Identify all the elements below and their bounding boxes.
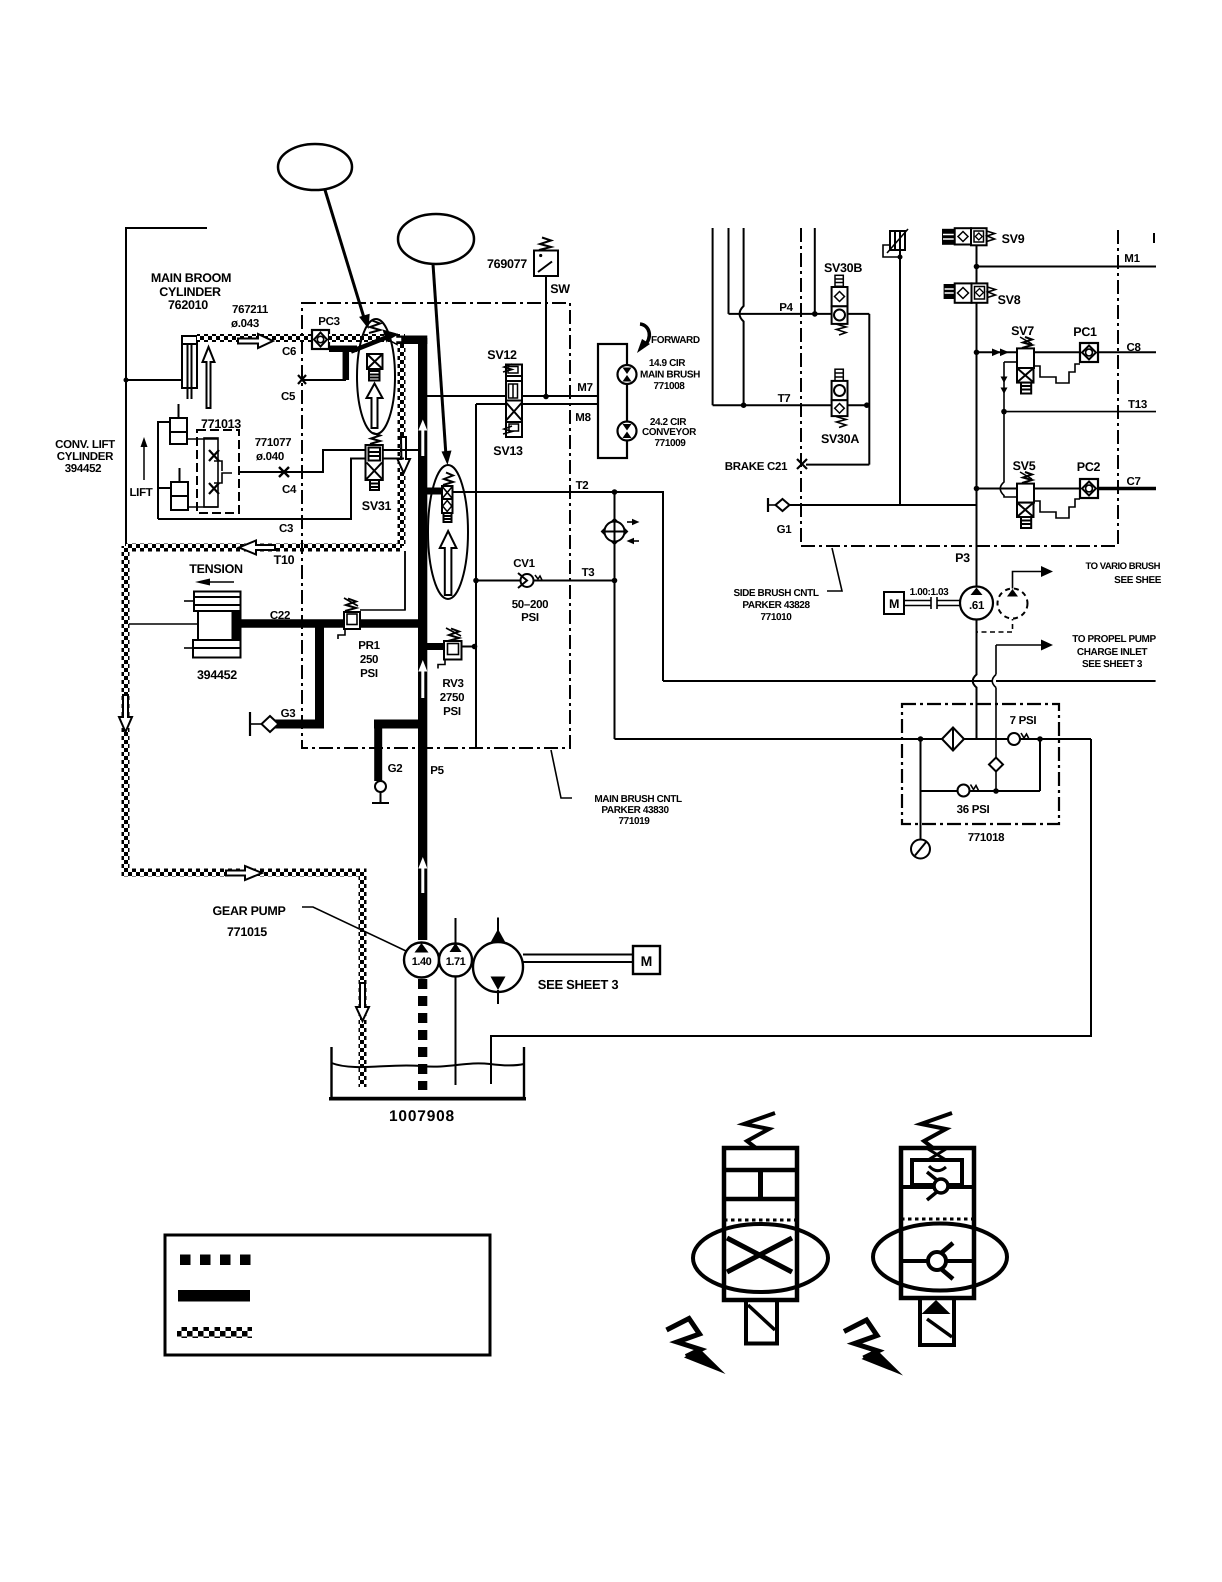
svg-text:C22: C22 xyxy=(270,610,290,622)
charge drop w/ hops xyxy=(973,620,977,740)
label side brush cntl w/ leader xyxy=(827,548,842,591)
svg-text:394452: 394452 xyxy=(197,668,237,682)
svg-text:769077: 769077 xyxy=(487,257,527,271)
svg-text:T3: T3 xyxy=(582,567,595,579)
svg-text:TENSION: TENSION xyxy=(189,562,243,576)
wire cooler return to manifold xyxy=(615,738,1092,740)
white up arrow in bar 1 xyxy=(418,420,427,457)
svg-text:P3: P3 xyxy=(955,551,970,565)
motor M xyxy=(633,946,660,974)
callout balloon 2 xyxy=(398,214,474,264)
wire T2/T3 drop to cooler line xyxy=(614,492,616,739)
white up arrow in bar 3 xyxy=(418,857,427,893)
flow arrow on C6 line xyxy=(238,334,273,348)
port G2 gauge point xyxy=(375,781,386,792)
svg-text:C7: C7 xyxy=(1126,476,1140,488)
wire T2 xyxy=(452,492,663,681)
drive shaft xyxy=(904,597,960,609)
brake port C21 xyxy=(797,459,807,469)
wire M8 riser xyxy=(475,404,477,748)
svg-text:PARKER 43828: PARKER 43828 xyxy=(742,600,810,611)
svg-text:G1: G1 xyxy=(777,524,793,536)
hollow up arrow beside cylinder xyxy=(203,347,215,408)
solenoid valve SV7 xyxy=(1017,337,1034,394)
svg-text:14.9 CIR: 14.9 CIR xyxy=(649,358,686,369)
wire C8 xyxy=(977,351,1081,353)
orifice PC1 xyxy=(1080,343,1098,362)
svg-text:M: M xyxy=(641,953,653,969)
pilot riser (checkered) xyxy=(398,342,406,546)
orifice C4 xyxy=(279,467,289,477)
sheet corner line top-left xyxy=(126,228,207,546)
sheet edge tick xyxy=(1153,233,1155,243)
lift arrow xyxy=(143,441,145,480)
wire P4 xyxy=(729,313,870,315)
svg-text:1.71: 1.71 xyxy=(446,956,466,968)
solenoid valve SV30B xyxy=(832,275,848,335)
svg-text:PSI: PSI xyxy=(360,668,378,680)
svg-text:M8: M8 xyxy=(575,412,591,424)
main broom cylinder 762010 xyxy=(182,336,197,388)
svg-text:M: M xyxy=(889,597,899,611)
solenoid valve SV31 xyxy=(366,433,383,490)
lightning bolt B xyxy=(844,1320,878,1358)
vario brush pump (phantom) xyxy=(998,589,1028,619)
svg-text:SV30B: SV30B xyxy=(824,261,862,275)
svg-text:T10: T10 xyxy=(274,553,295,567)
wire SV9 drop xyxy=(976,245,978,586)
orifice C5 with line xyxy=(298,375,306,384)
leader arrow from balloon 1 xyxy=(325,190,365,321)
svg-text:T7: T7 xyxy=(778,393,791,405)
svg-text:SEE SHEET 3: SEE SHEET 3 xyxy=(538,977,619,992)
solenoid valve SV8 xyxy=(945,283,996,302)
svg-text:ø.043: ø.043 xyxy=(231,318,259,330)
svg-text:PSI: PSI xyxy=(521,612,539,624)
label: conv lift cylinder xyxy=(55,417,297,535)
wire 36 PSI xyxy=(921,790,1041,792)
pilot return T10 (checkered) xyxy=(126,544,402,552)
svg-text:1007908: 1007908 xyxy=(389,1108,455,1125)
svg-text:1.00:1.03: 1.00:1.03 xyxy=(910,587,949,598)
wire C7 xyxy=(977,488,1081,490)
check path PC1 xyxy=(1034,364,1081,383)
svg-text:C8: C8 xyxy=(1126,342,1141,354)
wire M7 xyxy=(427,395,598,397)
svg-text:T2: T2 xyxy=(576,480,589,492)
pilot bottom run (checkered) xyxy=(122,869,367,877)
orifice X marks inside 771013 xyxy=(209,450,219,461)
svg-text:394452: 394452 xyxy=(65,463,102,475)
electric motor M xyxy=(884,592,904,614)
motor block main brush / conveyor xyxy=(598,344,627,458)
pilot line PC3 to riser (checkered) xyxy=(329,334,405,342)
heavy line C22 xyxy=(240,619,427,628)
relief valve RV3 xyxy=(427,643,444,650)
orifice PC2 xyxy=(1080,479,1098,498)
svg-text:C6: C6 xyxy=(282,346,296,358)
ellipse marker around valve 1 xyxy=(357,319,395,434)
port G1 xyxy=(767,498,769,512)
svg-text:SV9: SV9 xyxy=(1002,232,1025,246)
wire: cylinder to left margin xyxy=(126,379,182,381)
svg-text:771010: 771010 xyxy=(761,612,793,623)
svg-text:SV5: SV5 xyxy=(1013,459,1036,473)
tension cylinder 394452 xyxy=(184,592,241,658)
leader arrow from balloon 2 xyxy=(433,264,446,456)
1.71 suction xyxy=(455,977,457,1086)
svg-text:SV8: SV8 xyxy=(998,293,1021,307)
svg-text:.61: .61 xyxy=(969,600,985,612)
svg-text:SV31: SV31 xyxy=(362,499,392,513)
svg-text:P4: P4 xyxy=(779,302,793,314)
bypass drop SV7 xyxy=(1004,361,1017,363)
propel pump shaft xyxy=(523,954,633,956)
svg-text:CV1: CV1 xyxy=(513,558,535,570)
solenoid valve SV9 xyxy=(943,228,995,245)
pilot drop to tank (checkered) xyxy=(359,872,367,1087)
check valve 7 PSI xyxy=(1008,733,1020,745)
charge pump .61 xyxy=(960,587,993,620)
svg-text:ø.040: ø.040 xyxy=(256,451,284,463)
svg-text:CHARGE INLET: CHARGE INLET xyxy=(1077,647,1147,658)
riser T10 corner to PR1 pilot xyxy=(360,551,405,610)
valve PR1 over C22 xyxy=(338,598,360,639)
svg-text:PARKER 43830: PARKER 43830 xyxy=(601,805,669,816)
label main brush cntl w/ leader xyxy=(551,750,572,798)
pilot line C6 (checkered) xyxy=(197,334,312,342)
svg-text:762010: 762010 xyxy=(168,298,208,312)
right vertical P4 to C21 xyxy=(868,314,870,465)
pilot flow arrow down on riser xyxy=(397,437,410,473)
motor 24.2 CIR xyxy=(618,422,637,441)
svg-text:PC2: PC2 xyxy=(1077,460,1101,474)
lift cylinder lower xyxy=(171,482,188,510)
svg-text:SIDE BRUSH CNTL: SIDE BRUSH CNTL xyxy=(733,588,818,599)
solenoid valve SV5 xyxy=(1017,472,1034,528)
labels C6 C5 xyxy=(281,316,340,403)
svg-text:CONVEYOR: CONVEYOR xyxy=(642,427,697,438)
gauge xyxy=(911,840,930,859)
tank 1007908 xyxy=(332,1047,525,1098)
orifice PC3 xyxy=(312,330,329,349)
svg-text:TO VARIO BRUSH: TO VARIO BRUSH xyxy=(1086,561,1161,572)
svg-text:SV30A: SV30A xyxy=(821,432,859,446)
label P3 xyxy=(955,551,970,565)
lift cylinder upper xyxy=(170,418,187,444)
svg-text:771008: 771008 xyxy=(654,381,686,392)
svg-text:MAIN BRUSH: MAIN BRUSH xyxy=(640,370,700,381)
svg-text:771015: 771015 xyxy=(227,925,267,939)
svg-text:771013: 771013 xyxy=(201,417,241,431)
svg-text:CYLINDER: CYLINDER xyxy=(57,451,114,463)
enclosure: side brush cntl (dash-dot) xyxy=(801,228,1118,546)
svg-text:36 PSI: 36 PSI xyxy=(957,804,990,816)
check path PC2 xyxy=(1034,499,1081,518)
relief valve PR1 xyxy=(404,551,406,610)
check valve CV1 line T3 xyxy=(476,580,615,582)
phantom coupling xyxy=(977,619,1013,632)
quick disconnect symbol xyxy=(602,519,640,544)
white up arrow in bar 2 xyxy=(418,660,427,698)
wire T13 xyxy=(1004,411,1156,413)
forward rotation arrow xyxy=(640,324,649,346)
wires conv lift xyxy=(158,422,170,519)
enclosure: filter manifold 771018 (dash-dot) xyxy=(902,704,1059,824)
heavy line PC3 to valve port xyxy=(329,346,357,353)
svg-text:2750: 2750 xyxy=(440,692,464,704)
svg-text:FORWARD: FORWARD xyxy=(651,335,700,346)
lightning bolt A xyxy=(667,1319,701,1357)
wire M8 xyxy=(476,403,598,405)
heavy diagonal flow arrow to P5 bar xyxy=(351,338,385,352)
flow arrow on T10 xyxy=(239,541,275,555)
switch 769077 SW xyxy=(534,238,558,277)
branch to 36psi xyxy=(1039,739,1041,791)
svg-text:MAIN BROOM: MAIN BROOM xyxy=(151,271,231,285)
solenoid valve SV30A xyxy=(832,369,848,427)
svg-text:SEE SHEE: SEE SHEE xyxy=(1114,575,1162,586)
flow arrow right on bottom pilot xyxy=(226,866,262,880)
svg-text:CYLINDER: CYLINDER xyxy=(159,285,221,299)
gear pump 1.71 xyxy=(439,944,472,977)
flow arrow down to tank xyxy=(356,983,369,1021)
svg-text:SEE SHEET 3: SEE SHEET 3 xyxy=(1082,659,1143,670)
hollow up arrow in valve 1 xyxy=(367,384,383,429)
motor 14.9 CIR xyxy=(618,365,637,384)
svg-text:C4: C4 xyxy=(282,484,297,496)
svg-text:C5: C5 xyxy=(281,391,296,403)
svg-text:TO PROPEL PUMP: TO PROPEL PUMP xyxy=(1072,634,1156,645)
svg-text:PSI: PSI xyxy=(443,706,461,718)
svg-text:M7: M7 xyxy=(577,382,592,394)
svg-text:PC1: PC1 xyxy=(1073,325,1097,339)
svg-text:G2: G2 xyxy=(388,763,403,775)
svg-text:RV3: RV3 xyxy=(442,678,463,690)
wire M1 xyxy=(977,266,1157,268)
svg-text:M1: M1 xyxy=(1124,253,1140,265)
example valve B xyxy=(873,1113,1007,1345)
svg-text:SV13: SV13 xyxy=(493,444,523,458)
return to tank xyxy=(491,739,1091,1084)
svg-text:767211: 767211 xyxy=(232,304,269,316)
svg-text:250: 250 xyxy=(360,654,378,666)
hollow up arrow in valve 2 xyxy=(440,531,457,595)
svg-text:G3: G3 xyxy=(281,708,296,720)
port G3 xyxy=(262,716,279,732)
svg-text:771018: 771018 xyxy=(968,832,1005,844)
svg-text:BRAKE C21: BRAKE C21 xyxy=(725,461,788,473)
svg-text:LIFT: LIFT xyxy=(129,487,152,499)
wire to pilot margin xyxy=(129,623,198,625)
svg-text:CONV. LIFT: CONV. LIFT xyxy=(55,439,115,451)
heavy branch to G2 xyxy=(374,720,420,729)
svg-text:SW: SW xyxy=(550,282,570,296)
propel pump xyxy=(473,942,523,992)
filter xyxy=(942,728,964,751)
wire T7 xyxy=(713,404,870,406)
solenoid valve SV12/SV13 xyxy=(503,364,522,437)
svg-text:PR1: PR1 xyxy=(358,640,380,652)
main pressure bar P5 xyxy=(418,338,427,940)
svg-text:771009: 771009 xyxy=(655,438,687,449)
svg-text:771019: 771019 xyxy=(619,816,651,827)
svg-text:PC3: PC3 xyxy=(318,316,339,328)
callout balloon 1 xyxy=(278,144,352,190)
legend box xyxy=(165,1235,490,1355)
check valve CV1 xyxy=(521,574,534,587)
top feed lines to side brush valves xyxy=(712,228,714,405)
svg-text:C3: C3 xyxy=(279,523,293,535)
solenoid cartridge valve (balloon 1 target) xyxy=(367,321,383,429)
wire C3 xyxy=(158,459,404,520)
case drain trunk line xyxy=(663,680,1156,682)
wire C4 xyxy=(239,450,418,472)
propel charge tap xyxy=(996,645,1041,675)
label: main broom cylinder xyxy=(151,271,269,330)
ellipse marker around valve 2 xyxy=(428,465,468,599)
heavy branch to G3 xyxy=(315,624,324,725)
left pilot drop (checkered) xyxy=(122,546,130,873)
svg-text:SV12: SV12 xyxy=(487,348,517,362)
tension arrow xyxy=(210,581,234,583)
svg-text:771077: 771077 xyxy=(255,437,292,449)
svg-text:7 PSI: 7 PSI xyxy=(1010,715,1037,727)
white flow arrow at bar top pointing left xyxy=(388,335,402,345)
solenoid cartridge valve (balloon 2 target) xyxy=(440,473,457,596)
svg-text:P5: P5 xyxy=(430,765,444,777)
label gear pump w/ leader xyxy=(212,904,285,939)
flow arrow down on left pilot xyxy=(119,695,132,732)
svg-text:50–200: 50–200 xyxy=(512,599,549,611)
heavy stub P5 bar to valve 2 xyxy=(427,488,443,495)
legend: heavy line sample xyxy=(178,1290,250,1302)
svg-text:SV7: SV7 xyxy=(1011,324,1034,338)
enclosure: main brush cntl (dash-dot box) xyxy=(302,303,570,748)
svg-text:T13: T13 xyxy=(1128,399,1147,411)
bypass drop to SV5 w/ crossover hop xyxy=(1000,412,1017,497)
legend: checkered sample xyxy=(177,1327,252,1338)
svg-text:MAIN BRUSH CNTL: MAIN BRUSH CNTL xyxy=(594,794,682,805)
svg-text:1.40: 1.40 xyxy=(412,956,432,968)
bypass check drop xyxy=(995,772,997,792)
svg-text:GEAR PUMP: GEAR PUMP xyxy=(212,904,285,918)
gear pump 1.40 xyxy=(404,943,439,978)
flow control block 771013 (dashed box) xyxy=(197,430,239,513)
check valve 36 PSI xyxy=(958,785,970,797)
pressure reducing valve top xyxy=(883,229,908,505)
example valve A xyxy=(693,1113,828,1344)
legend: pilot dashes sample xyxy=(178,1255,251,1302)
suction line (bold dashes) xyxy=(418,979,427,1090)
